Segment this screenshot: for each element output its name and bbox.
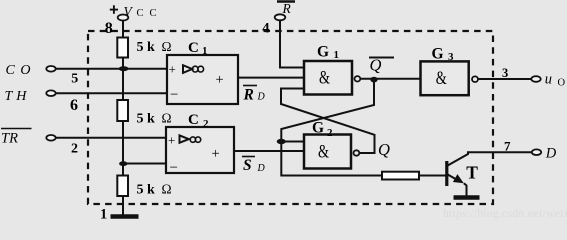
- wire R2 to R3: [122, 121, 124, 176]
- wire TH to C1 - input: [56, 92, 167, 94]
- svg-text:T: T: [466, 162, 478, 182]
- svg-text:3: 3: [448, 51, 454, 63]
- svg-text:1: 1: [334, 49, 340, 61]
- svg-text:6: 6: [70, 97, 78, 114]
- svg-text:5 k: 5 k: [137, 40, 156, 55]
- Vcc terminal: [110, 4, 163, 21]
- svg-text:+: +: [169, 62, 176, 77]
- pin 3 terminal: [531, 76, 540, 82]
- emitter with arrow: [447, 174, 457, 180]
- wire C2 output to G2 lower input: [234, 150, 304, 152]
- collector: [447, 152, 532, 166]
- svg-text:5 k: 5 k: [137, 112, 156, 127]
- resistor R3 5k: [117, 176, 128, 197]
- pin 2 terminal: [46, 135, 55, 141]
- svg-text:TR: TR: [1, 130, 18, 146]
- wire R4 to transistor base: [419, 175, 446, 177]
- svg-text:CC: CC: [137, 8, 163, 19]
- svg-text:&: &: [318, 143, 329, 163]
- svg-text:G: G: [432, 46, 444, 63]
- svg-text:+: +: [216, 72, 224, 88]
- svg-text:&: &: [436, 69, 447, 89]
- node: R2-R3 junction: [119, 161, 127, 166]
- svg-text:G: G: [312, 120, 324, 137]
- svg-text:5: 5: [71, 72, 78, 87]
- svg-text:−: −: [170, 160, 178, 176]
- svg-text:CO: CO: [6, 63, 36, 78]
- wire tap to G2 input: [281, 141, 304, 143]
- resistor R1 5k: [117, 38, 128, 58]
- resistor R2 5k: [117, 100, 128, 121]
- svg-text:R: R: [243, 87, 254, 104]
- svg-text:https://blog.csdn.net/weixin: https://blog.csdn.net/weixin: [443, 208, 567, 220]
- pin 4 reset terminal R-bar: [275, 1, 295, 20]
- gate G1: [304, 61, 352, 95]
- discharge base resistor R4: [382, 172, 419, 180]
- node Q-bar junction: [370, 77, 377, 83]
- svg-text:8: 8: [105, 20, 113, 37]
- svg-text:R: R: [282, 1, 292, 16]
- pin 7 terminal: [532, 149, 541, 155]
- svg-text:4: 4: [262, 20, 269, 36]
- wire CO to C1 + input: [56, 68, 167, 70]
- svg-text:5 k: 5 k: [137, 182, 156, 197]
- svg-text:3: 3: [502, 66, 508, 80]
- svg-text:D: D: [257, 92, 266, 103]
- svg-text:D: D: [545, 146, 557, 162]
- svg-text:Ω: Ω: [162, 39, 172, 54]
- svg-text:Ω: Ω: [162, 181, 172, 196]
- svg-text:−: −: [170, 87, 178, 103]
- node: R1-R2 junction (control voltage): [119, 66, 129, 71]
- wire Q-bar down to G2 top input and to discharge resistor (cross-coupling): [281, 82, 382, 176]
- svg-text:2: 2: [71, 142, 78, 157]
- svg-text:1: 1: [100, 206, 107, 222]
- wire pin4 down and into G1 top input: [280, 20, 304, 67]
- svg-text:O: O: [558, 77, 566, 88]
- transistor T: [447, 152, 532, 196]
- wire G3 to pin 3 terminal: [478, 78, 531, 80]
- G2 output bubble: [354, 150, 360, 155]
- svg-text:G: G: [317, 44, 329, 61]
- wire R3 to ground pin 1: [122, 196, 124, 216]
- svg-text:C: C: [188, 40, 199, 56]
- wire TR to C2 + input: [56, 137, 166, 139]
- ground (transistor emitter): [454, 195, 480, 200]
- wire Vcc to R1: [122, 21, 124, 38]
- svg-text:+: +: [212, 146, 220, 162]
- svg-text:D: D: [257, 163, 266, 174]
- gate G3: [421, 61, 469, 95]
- gate G2: [304, 135, 351, 169]
- wire R2-R3 junction to C2 - input: [123, 163, 166, 165]
- pin 5 terminal: [46, 66, 55, 72]
- comparator C1: [167, 55, 238, 104]
- wire G2 bubble up to G1 bottom input (cross-coupling): [281, 89, 375, 154]
- wire R1 to R2: [122, 58, 124, 101]
- wire G1 bubble to G3 input: [361, 78, 420, 80]
- svg-text:&: &: [319, 68, 330, 88]
- svg-text:+: +: [168, 133, 175, 148]
- G1 output bubble: [355, 76, 361, 81]
- svg-text:S: S: [243, 157, 252, 174]
- pin 6 terminal: [46, 90, 55, 96]
- svg-text:TH: TH: [5, 89, 31, 104]
- node: tap to G2 first input: [277, 139, 286, 144]
- IC package boundary (dashed): [88, 31, 493, 204]
- svg-text:u: u: [545, 71, 552, 87]
- wire C1 output to G1 middle input: [238, 77, 304, 79]
- svg-text:Q: Q: [378, 140, 390, 159]
- G3 output bubble: [472, 76, 478, 82]
- svg-text:7: 7: [504, 139, 511, 154]
- svg-text:1: 1: [202, 45, 208, 57]
- comparator C2: [166, 127, 234, 176]
- svg-text:C: C: [188, 112, 199, 128]
- svg-text:2: 2: [327, 127, 333, 139]
- ground (pin 1): [111, 214, 139, 219]
- svg-text:Ω: Ω: [162, 111, 172, 126]
- svg-text:2: 2: [203, 118, 209, 130]
